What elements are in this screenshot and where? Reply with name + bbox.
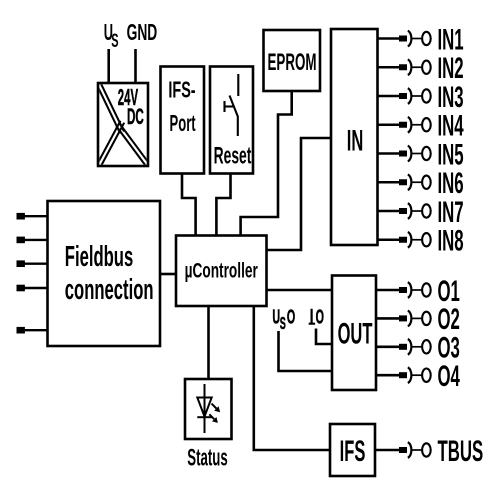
svg-text:TBUS: TBUS: [438, 435, 484, 468]
svg-text:connection: connection: [65, 273, 154, 305]
svg-text:Port: Port: [170, 110, 196, 136]
svg-text:U: U: [272, 306, 280, 329]
svg-text:Status: Status: [187, 444, 227, 471]
svg-text:IN: IN: [347, 124, 364, 157]
svg-text:IN8: IN8: [438, 225, 464, 258]
svg-text:O: O: [287, 306, 295, 329]
svg-text:DC: DC: [127, 104, 144, 129]
svg-text:O: O: [316, 306, 324, 329]
svg-text:S: S: [280, 312, 286, 332]
svg-text:O4: O4: [438, 360, 461, 393]
svg-text:IFS-: IFS-: [168, 78, 195, 103]
svg-text:GND: GND: [127, 21, 158, 46]
svg-text:IFS: IFS: [340, 435, 366, 468]
svg-text:EPROM: EPROM: [267, 49, 316, 76]
svg-text:S: S: [111, 31, 118, 52]
svg-text:Reset: Reset: [214, 143, 252, 170]
svg-text:Fieldbus: Fieldbus: [65, 240, 133, 272]
svg-text:OUT: OUT: [338, 318, 373, 351]
svg-text:µController: µController: [185, 259, 258, 283]
